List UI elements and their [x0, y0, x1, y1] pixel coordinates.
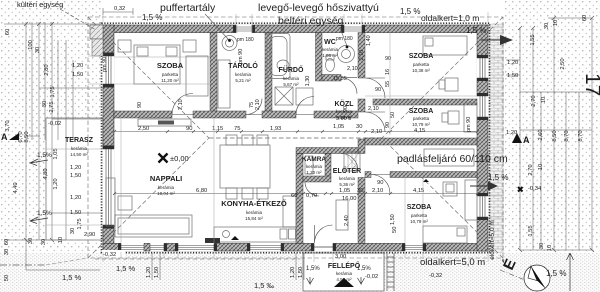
svg-text:90: 90: [377, 180, 383, 186]
svg-text:100: 100: [28, 40, 34, 50]
door szoba1: [172, 94, 193, 115]
svg-text:2,80: 2,80: [44, 64, 50, 75]
svg-text:előkert=5,0 m: előkert=5,0 m: [489, 220, 496, 260]
exterior wall top: [103, 25, 488, 33]
interior wall wc bottom: [322, 75, 341, 82]
interior dim chain y130: [113, 130, 479, 133]
interior wall szoba2r bottom: [365, 138, 477, 145]
svg-text:1,5 %: 1,5 %: [546, 269, 566, 278]
svg-text:10: 10: [538, 164, 544, 170]
svg-text:beltéri egység: beltéri egység: [278, 15, 344, 27]
window bottom wall (nappali 1): [121, 243, 144, 251]
witness projection lines: [46, 8, 504, 262]
svg-text:60: 60: [291, 193, 297, 199]
svg-text:1,40: 1,40: [366, 35, 372, 46]
svg-text:30: 30: [544, 23, 550, 29]
svg-text:30: 30: [4, 249, 10, 255]
svg-text:1,20: 1,20: [70, 165, 81, 171]
right chain numbers: [506, 60, 542, 192]
interior wall corridor/right rooms (upper): [358, 33, 365, 78]
svg-text:kerámia: kerámia: [306, 164, 323, 169]
svg-text:30: 30: [70, 228, 76, 234]
room nappali: [150, 174, 182, 196]
elevation ±0,00: [159, 154, 189, 164]
interior wall between top rooms and nappali: [114, 111, 172, 118]
svg-text:1,5%: 1,5%: [37, 152, 52, 159]
svg-text:parketta: parketta: [413, 116, 430, 121]
svg-text:2,10: 2,10: [372, 188, 383, 194]
wardrobe szoba3: [465, 180, 477, 220]
svg-text:1,5 ‰: 1,5 ‰: [254, 281, 275, 290]
svg-text:1,20: 1,20: [506, 130, 517, 136]
left chain numbers (rotated): [4, 29, 553, 281]
svg-text:1,5 %: 1,5 %: [116, 264, 136, 273]
terrace slab (white): [46, 118, 103, 240]
coffee table nappali: [118, 196, 132, 210]
svg-text:pm 90: pm 90: [466, 117, 472, 132]
svg-text:1,50: 1,50: [390, 214, 396, 225]
svg-text:4,80: 4,80: [43, 168, 49, 179]
svg-text:2,40: 2,40: [344, 215, 350, 226]
svg-text:SZOBA: SZOBA: [407, 204, 432, 211]
desk+chair szoba right top: [445, 78, 458, 91]
svg-text:1,93: 1,93: [270, 126, 281, 132]
wc pan: [326, 59, 335, 72]
svg-text:10: 10: [541, 97, 547, 103]
svg-text:1,20: 1,20: [53, 178, 59, 189]
window bottom wall (konyha): [178, 243, 214, 251]
hip roof diagonals: [88, 17, 503, 258]
svg-text:30: 30: [357, 188, 363, 194]
svg-text:TÁROLÓ: TÁROLÓ: [228, 61, 258, 70]
kitchen counter bottom: [214, 227, 296, 242]
svg-text:1,5 %: 1,5 %: [488, 173, 508, 182]
svg-text:1,50: 1,50: [72, 72, 83, 78]
svg-text:4,15: 4,15: [414, 128, 425, 134]
svg-text:1,5 %: 1,5 %: [142, 13, 162, 22]
door tároló: [246, 99, 262, 115]
svg-text:puffertartály: puffertartály: [160, 2, 216, 14]
section marker A left: [1, 132, 19, 142]
outdoor unit pad (kültéri egység): [90, 25, 103, 39]
svg-text:2,10: 2,10: [368, 106, 379, 112]
svg-text:1,5 %: 1,5 %: [62, 273, 82, 282]
window top wall (wc): [344, 25, 362, 33]
svg-text:1,50: 1,50: [298, 267, 304, 278]
room konyha-étkező: [221, 199, 287, 221]
kitchen counter right: [283, 196, 296, 227]
attic stair hatch: [344, 152, 360, 171]
interior wall kamra top / közl: [296, 148, 358, 154]
room szoba bottom right: [407, 204, 432, 224]
svg-text:18,04 m²: 18,04 m²: [157, 191, 175, 196]
room szoba right mid: [409, 108, 434, 127]
interior dim chain y192: [113, 192, 479, 195]
entry door arc: [315, 225, 333, 243]
svg-text:1,5 %: 1,5 %: [466, 26, 486, 35]
svg-text:11,20 m²: 11,20 m²: [161, 78, 179, 83]
svg-text:17: 17: [581, 73, 600, 96]
svg-text:1,96 m²: 1,96 m²: [322, 53, 338, 58]
room terasz: [65, 137, 94, 157]
bed szoba1: [134, 45, 180, 84]
shelves tároló: [218, 60, 230, 108]
svg-text:KONYHA-ÉTKEZŐ: KONYHA-ÉTKEZŐ: [221, 199, 287, 208]
interior wall szoba1/tároló: [210, 33, 217, 112]
svg-text:0,32: 0,32: [114, 6, 125, 12]
svg-text:16,00: 16,00: [342, 196, 357, 202]
right dimension chain verticals: [506, 16, 600, 252]
left witness lines: [46, 56, 102, 240]
svg-text:4,15: 4,15: [413, 188, 424, 194]
svg-text:KAMRA: KAMRA: [302, 156, 326, 163]
stipple field left: [0, 0, 101, 292]
svg-text:1,05: 1,05: [53, 148, 59, 159]
chairs above table: [226, 135, 237, 145]
window top wall (tároló): [236, 25, 252, 33]
svg-text:SZOBA: SZOBA: [409, 53, 434, 60]
svg-text:kerámia: kerámia: [246, 210, 263, 215]
room közl: [334, 99, 354, 120]
svg-text:14,50 m²: 14,50 m²: [70, 152, 88, 157]
walkway brick strip right of house: [489, 23, 504, 253]
kamra shelf: [305, 156, 313, 174]
bathtub fürdő: [267, 34, 290, 79]
svg-text:FELLÉPŐ: FELLÉPŐ: [328, 261, 361, 270]
svg-text:50: 50: [390, 112, 396, 118]
svg-text:30: 30: [539, 243, 545, 249]
svg-text:15,84 m²: 15,84 m²: [245, 216, 263, 221]
top dim: [114, 6, 162, 22]
svg-text:8,70: 8,70: [578, 130, 584, 141]
svg-text:50: 50: [392, 227, 398, 233]
window right wall (szoba3): [477, 196, 489, 217]
top witness lines: [103, 8, 488, 25]
exterior wall left: [103, 25, 114, 251]
svg-text:NAPPALI: NAPPALI: [150, 174, 182, 183]
room fürdő: [279, 65, 304, 87]
svg-text:2,70: 2,70: [528, 164, 534, 175]
window bottom wall (konyha 2): [250, 243, 281, 251]
svg-text:1,75: 1,75: [50, 86, 56, 97]
svg-text:-0,32: -0,32: [103, 252, 116, 258]
svg-text:-0,02: -0,02: [48, 121, 61, 127]
right witness lines: [489, 58, 504, 217]
svg-text:1,50: 1,50: [154, 267, 160, 278]
svg-text:SZOBA: SZOBA: [409, 108, 434, 115]
washbasin fürdő: [277, 60, 289, 70]
door kamra: [305, 182, 319, 196]
insulation dotted outline around exterior: [102, 23, 490, 253]
shower fürdő: [296, 88, 313, 105]
svg-text:1,20: 1,20: [507, 60, 518, 66]
washing machine fürdő: [275, 87, 293, 105]
svg-text:KÖZL: KÖZL: [334, 99, 354, 108]
svg-text:1,5%: 1,5%: [357, 266, 371, 272]
desk szoba3: [443, 182, 457, 196]
svg-text:1,15: 1,15: [212, 126, 223, 132]
svg-text:A: A: [523, 135, 530, 145]
svg-text:kerámia: kerámia: [235, 72, 252, 77]
svg-text:1,20: 1,20: [72, 63, 83, 69]
window right wall (szoba2): [477, 96, 489, 117]
dark frame marks on bottom wall: [205, 238, 220, 243]
svg-text:6,80: 6,80: [196, 188, 207, 194]
svg-text:kültéri egység: kültéri egység: [17, 0, 63, 9]
dining table: [220, 145, 270, 188]
svg-text:A: A: [1, 132, 8, 142]
window right wall (szoba1): [477, 58, 489, 78]
door közl/előtér: [341, 154, 358, 171]
svg-text:1,20: 1,20: [146, 267, 152, 278]
room szoba top-left: [157, 61, 184, 83]
roof eaves dashed outline: [88, 17, 503, 258]
svg-text:30: 30: [356, 124, 362, 130]
chairs below table: [226, 188, 237, 199]
property line bottom-left: [0, 264, 46, 266]
svg-text:kerámia: kerámia: [158, 185, 175, 190]
door szoba right top: [365, 78, 385, 98]
stipple field right: [504, 0, 600, 253]
svg-text:60: 60: [5, 29, 11, 35]
svg-text:90: 90: [186, 126, 192, 132]
interior construction lines: [114, 25, 477, 135]
svg-text:0,70: 0,70: [306, 193, 317, 199]
svg-text:90: 90: [137, 102, 143, 108]
svg-text:4,40: 4,40: [13, 182, 19, 193]
elevation diamond right: [518, 187, 523, 192]
svg-text:2,70: 2,70: [531, 95, 537, 106]
svg-text:60: 60: [582, 15, 588, 21]
elevation mark bottom: [231, 236, 239, 240]
svg-text:4,59 m²: 4,59 m²: [336, 115, 352, 120]
svg-text:-0,34: -0,34: [528, 186, 542, 192]
svg-text:8,50: 8,50: [552, 130, 558, 141]
window dims left of szoba window: [72, 63, 83, 78]
interior wall fürdő/wc: [316, 33, 323, 81]
svg-text:1,5 %: 1,5 %: [400, 7, 420, 16]
svg-text:2,50: 2,50: [560, 58, 566, 69]
svg-text:oldalkert=5,0 m: oldalkert=5,0 m: [420, 257, 485, 268]
svg-text:SZOBA: SZOBA: [157, 61, 184, 70]
svg-text:parketta: parketta: [411, 213, 428, 218]
svg-text:1,5%: 1,5%: [306, 266, 320, 272]
svg-text:30: 30: [28, 238, 34, 244]
hall closet: [424, 149, 474, 166]
room wc: [322, 39, 339, 58]
door szoba right mid: [365, 112, 385, 132]
svg-text:8,70: 8,70: [564, 130, 570, 141]
bed szoba3: [423, 226, 467, 243]
svg-text:parketta: parketta: [162, 72, 179, 77]
window bottom wall (nappali 2): [150, 243, 164, 251]
svg-text:10,79 m²: 10,79 m²: [412, 122, 430, 127]
svg-text:90: 90: [375, 87, 381, 93]
fellépő step triangle: [334, 278, 354, 287]
interior wall szoba1r/szoba2r: [373, 99, 477, 105]
svg-text:10,79 m²: 10,79 m²: [410, 219, 428, 224]
bottom small dims: [146, 227, 398, 278]
svg-text:30: 30: [35, 47, 41, 53]
svg-text:2,10: 2,10: [347, 66, 358, 72]
svg-text:-0,32: -0,32: [429, 273, 442, 279]
fellépő label: [328, 261, 361, 282]
door dims rotated: [102, 35, 472, 226]
előtér cabinet: [336, 200, 348, 230]
room tároló: [228, 61, 258, 83]
svg-text:60: 60: [4, 239, 10, 245]
svg-text:1,05: 1,05: [339, 188, 350, 194]
bottom witness lines: [103, 252, 488, 262]
svg-text:10: 10: [553, 20, 559, 26]
svg-text:1,50: 1,50: [70, 210, 81, 216]
room szoba right top: [409, 53, 434, 73]
svg-text:kerámia: kerámia: [283, 76, 300, 81]
svg-text:2,10: 2,10: [371, 129, 382, 135]
svg-text:2,50: 2,50: [138, 126, 149, 132]
svg-text:3,70: 3,70: [5, 120, 11, 131]
svg-text:kerámia: kerámia: [336, 271, 353, 276]
svg-text:1,50: 1,50: [507, 73, 518, 79]
room kamra: [302, 156, 326, 175]
svg-text:1,55: 1,55: [530, 34, 536, 45]
terrace interior dims: [48, 121, 95, 238]
interior wall kamra bottom: [303, 176, 331, 182]
svg-text:2,10: 2,10: [359, 50, 365, 61]
exterior wall bottom: [103, 243, 488, 251]
svg-text:15 85: 15 85: [333, 76, 347, 82]
section marker A right: [512, 133, 530, 145]
window bottom wall (szoba3): [405, 243, 423, 251]
svg-text:3,00: 3,00: [335, 254, 346, 260]
svg-text:5,67 m²: 5,67 m²: [283, 82, 299, 87]
exterior wall right: [477, 25, 488, 251]
entry door bottom wall (előtér): [314, 243, 333, 251]
door szoba3: [371, 175, 390, 194]
lower outdoor pad on left wall: [92, 39, 103, 56]
svg-text:8,50: 8,50: [24, 131, 30, 142]
svg-text:FÜRDŐ: FÜRDŐ: [279, 65, 304, 74]
svg-text:±0,00: ±0,00: [170, 154, 189, 163]
svg-text:levegő-levegő hőszivattyú: levegő-levegő hőszivattyú: [258, 2, 379, 14]
interior wall hall/szoba3: [365, 172, 371, 178]
svg-text:5,36 m²: 5,36 m²: [339, 182, 355, 187]
svg-text:2,75: 2,75: [49, 101, 55, 112]
svg-text:1,05: 1,05: [333, 124, 344, 130]
svg-text:-0,02: -0,02: [365, 274, 378, 280]
stipple band bottom: [0, 253, 600, 292]
interior wall kamra/előtér: [325, 154, 331, 177]
svg-text:kerámia: kerámia: [71, 146, 88, 151]
dark window jamb blocks: [103, 25, 488, 251]
svg-text:10,38 m²: 10,38 m²: [412, 68, 430, 73]
sofa nappali vertical: [106, 178, 115, 226]
tv cabinet nappali: [138, 119, 191, 126]
svg-text:30: 30: [42, 101, 48, 107]
svg-text:1,75: 1,75: [77, 218, 83, 229]
svg-text:30: 30: [41, 239, 47, 245]
svg-text:2,10: 2,10: [255, 99, 261, 110]
svg-text:75: 75: [234, 126, 240, 132]
svg-text:pm 180: pm 180: [237, 37, 254, 43]
wardrobe szoba right mid: [464, 103, 477, 132]
svg-text:1,5%: 1,5%: [37, 210, 52, 217]
svg-text:WC: WC: [324, 39, 336, 46]
svg-text:TERASZ: TERASZ: [65, 137, 94, 144]
svg-text:50: 50: [4, 275, 10, 281]
indoor heat pump unit circle: [338, 46, 355, 63]
window left wall (szoba): [103, 56, 115, 84]
svg-text:kerámia: kerámia: [339, 176, 356, 181]
svg-text:1,30: 1,30: [305, 76, 311, 87]
svg-text:2,10: 2,10: [178, 99, 184, 110]
door wc: [341, 78, 357, 94]
bed szoba right top: [423, 36, 467, 55]
svg-text:1,20: 1,20: [70, 195, 81, 201]
svg-text:kerámia: kerámia: [336, 109, 353, 114]
svg-text:parketta: parketta: [413, 62, 430, 67]
wardrobe szoba1: [186, 56, 208, 96]
svg-text:1,50: 1,50: [70, 173, 81, 179]
svg-text:1,20 m²: 1,20 m²: [306, 170, 322, 175]
svg-text:pm 90: pm 90: [102, 57, 108, 72]
fellépő slab white: [303, 253, 384, 291]
interior wall tároló/fürdő: [265, 33, 272, 112]
room előtér: [333, 166, 361, 187]
svg-text:2,60: 2,60: [538, 129, 544, 140]
left dimension chain verticals: [4, 22, 103, 270]
sofa nappali horizontal: [115, 215, 192, 237]
door fürdő: [296, 97, 314, 115]
nightstand szoba1: [118, 40, 131, 52]
buffer tank (puffertartály): [222, 36, 237, 51]
svg-text:oldalkert=1,0 m: oldalkert=1,0 m: [421, 13, 479, 23]
svg-text:2,90: 2,90: [84, 232, 95, 238]
desk+chair szoba right mid: [448, 111, 459, 124]
interior wall konyha/kamra: [296, 154, 303, 244]
svg-text:padlásfeljáró 60/110 cm: padlásfeljáró 60/110 cm: [397, 153, 508, 165]
compass rose: [524, 265, 550, 291]
svg-text:5,21 m²: 5,21 m²: [235, 78, 251, 83]
glass wall left (nappali-terasz): [103, 149, 115, 225]
svg-text:kerámia: kerámia: [322, 47, 339, 52]
svg-text:pm 90: pm 90: [238, 49, 244, 64]
svg-text:1,20: 1,20: [290, 267, 296, 278]
